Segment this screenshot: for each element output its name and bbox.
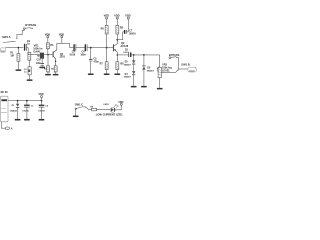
wire power rail <box>18 100 42 102</box>
svg-text:SW1 A: SW1 A <box>2 35 10 39</box>
svg-text:R7: R7 <box>100 62 104 65</box>
switch SW1A <box>3 38 18 43</box>
power VDD symbol M1 <box>106 17 108 25</box>
svg-text:AC128: AC128 <box>120 45 128 48</box>
svg-text:VDD: VDD <box>59 33 64 36</box>
node junction (after caps) <box>90 47 92 49</box>
switch SW1C <box>75 106 86 109</box>
diode D3 <box>132 55 135 71</box>
wire gain node line <box>28 54 53 56</box>
ground (VR2) <box>157 88 163 90</box>
wire SW1B up to bypass <box>178 57 180 67</box>
connector A <box>5 127 9 129</box>
capacitor C1 <box>24 101 30 119</box>
ground (D5) <box>141 86 147 88</box>
svg-text:A: A <box>11 127 13 130</box>
resistor R2 (LED) <box>92 108 111 111</box>
svg-text:1N4007: 1N4007 <box>147 69 155 72</box>
svg-text:DC IN: DC IN <box>1 91 8 94</box>
wire SW1C to ground <box>75 110 77 116</box>
capacitor C9 <box>24 44 28 51</box>
svg-text:100n: 100n <box>81 55 87 57</box>
ground (C5) <box>88 74 94 76</box>
resistor R1 <box>17 49 20 70</box>
diode D5 <box>142 55 145 86</box>
svg-text:VDD: VDD <box>125 14 130 17</box>
svg-text:R8: R8 <box>120 27 124 30</box>
node junction (base) <box>106 47 108 49</box>
node junction D5 <box>143 54 145 56</box>
svg-text:D4: D4 <box>125 73 129 76</box>
capacitor C3 <box>73 44 76 51</box>
capacitor C5 column <box>89 48 92 74</box>
svg-text:1N4007: 1N4007 <box>124 76 132 79</box>
wire jack tip to node <box>5 47 23 49</box>
svg-text:SW1 B: SW1 B <box>181 62 190 66</box>
svg-text:BYPASS: BYPASS <box>169 53 180 57</box>
input jack J1 <box>0 48 5 52</box>
svg-text:VDD: VDD <box>118 101 123 104</box>
resistor R3 column <box>47 55 50 74</box>
node junction (D1) <box>17 100 19 102</box>
svg-text:SW1 C: SW1 C <box>75 102 83 106</box>
wire SW1C to R2led <box>86 108 91 110</box>
power VDD symbol M2 <box>116 17 118 25</box>
capacitor C8 <box>117 52 159 57</box>
wire bypass to SW1A <box>17 30 24 38</box>
svg-text:1M: 1M <box>10 54 13 57</box>
svg-text:C1: C1 <box>31 106 35 108</box>
junction (emitter) <box>117 54 119 56</box>
capacitor C2 power <box>39 101 45 119</box>
svg-text:100/16: 100/16 <box>38 110 45 112</box>
ground (R3) <box>45 74 51 76</box>
ground (SW1C) <box>73 116 79 118</box>
svg-text:1N4007: 1N4007 <box>124 64 132 67</box>
node junction (C1) <box>26 100 28 102</box>
node junction D3 <box>133 54 135 56</box>
bypass switch SW1-right <box>169 57 179 59</box>
diode D1 <box>16 101 19 119</box>
svg-text:C3: C3 <box>72 52 76 54</box>
power VDD symbol (LED) <box>120 103 122 105</box>
wire collector to C7 <box>117 32 124 40</box>
power VDD symbol L2 <box>61 36 63 44</box>
pot VR2 LEVEL <box>157 55 161 88</box>
svg-text:10/16: 10/16 <box>123 52 129 54</box>
svg-text:LED1: LED1 <box>104 104 110 106</box>
svg-text:D3: D3 <box>125 62 129 64</box>
svg-text:100/16: 100/16 <box>129 34 137 36</box>
wire C9 down to gain node <box>27 48 29 55</box>
svg-text:100n: 100n <box>36 63 42 65</box>
ground (R1) <box>16 69 22 71</box>
resistor R8 <box>116 25 119 39</box>
capacitor C2 column <box>28 52 31 79</box>
svg-text:C10: C10 <box>37 60 42 62</box>
ground (C2 power) <box>39 119 45 121</box>
wire drain line <box>57 43 70 47</box>
node junction (gate) <box>47 54 49 56</box>
output jack J2 <box>188 67 196 72</box>
node junction (input) <box>18 47 20 49</box>
power VDD symbol L1 <box>47 36 49 43</box>
diode D4 <box>132 71 135 86</box>
resistor R9 column <box>116 55 119 74</box>
svg-text:1u: 1u <box>24 72 27 74</box>
svg-text:VDD: VDD <box>39 93 44 96</box>
capacitor C4 <box>85 44 88 51</box>
capacitor C7 <box>124 30 128 34</box>
wire DC jack sleeve to A <box>2 122 6 128</box>
wire pot to SW1B <box>161 71 175 73</box>
svg-text:D5: D5 <box>147 67 151 69</box>
svg-text:J201: J201 <box>59 56 65 59</box>
svg-text:VDD: VDD <box>114 14 119 17</box>
wire SW1B to jack <box>179 68 188 70</box>
power VDD symbol (rail) <box>41 96 43 101</box>
svg-text:1N4001: 1N4001 <box>10 109 18 112</box>
svg-text:D1: D1 <box>12 105 16 107</box>
power VDD symbol M3 <box>127 17 129 32</box>
LED LED1 <box>110 105 118 113</box>
svg-text:470p: 470p <box>94 61 100 64</box>
transistor Q1 J201 <box>53 43 57 65</box>
node junction (C2p) <box>41 100 43 102</box>
ground (R9) <box>115 74 121 76</box>
svg-text:C5: C5 <box>94 59 98 61</box>
svg-text:BYPASS: BYPASS <box>25 23 36 27</box>
svg-text:C7: C7 <box>129 31 133 33</box>
ground (D3/D4) <box>131 86 137 88</box>
bypass switch SW1-left (top-left) <box>23 28 33 30</box>
transistor Q2 AC128 <box>113 40 117 55</box>
resistor R5 column (source) <box>54 66 57 74</box>
svg-text:10/16: 10/16 <box>69 55 75 57</box>
svg-text:LOW CURRENT LED1: LOW CURRENT LED1 <box>96 112 123 116</box>
node junction (collector) <box>116 39 118 41</box>
svg-text:VDD: VDD <box>104 14 109 17</box>
ground (R7) <box>104 74 110 76</box>
ground (D1) <box>15 119 21 121</box>
svg-text:R4: R4 <box>50 44 54 47</box>
resistor R7 column <box>105 48 108 74</box>
ground (C2) <box>27 79 33 81</box>
resistor R6 <box>105 25 108 47</box>
svg-text:C6: C6 <box>45 106 49 108</box>
svg-text:VDD: VDD <box>45 33 50 36</box>
ground (C1) <box>24 119 30 121</box>
svg-text:C2: C2 <box>24 69 28 71</box>
wire LED to VDD <box>115 105 121 110</box>
svg-text:100/16: 100/16 <box>22 110 29 112</box>
switch SW1B <box>176 68 180 73</box>
svg-text:LEVEL: LEVEL <box>162 69 170 72</box>
DC jack <box>0 96 17 122</box>
ground (C10) <box>39 67 45 69</box>
svg-text:GAIN: GAIN <box>33 50 39 53</box>
pot VR1 GAIN <box>38 53 44 67</box>
wire signal line <box>70 47 114 49</box>
resistor R4 <box>46 43 49 55</box>
svg-text:R6: R6 <box>101 28 105 31</box>
ground (R5) <box>53 74 59 76</box>
